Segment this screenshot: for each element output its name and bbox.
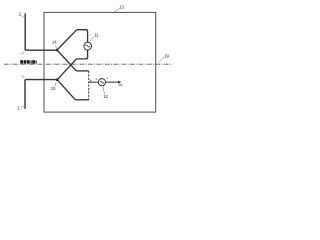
wire: right side vertical bbox=[88, 71, 90, 100]
wire: bottom edge bbox=[75, 99, 88, 101]
wire: lower step horizontal bbox=[76, 70, 88, 72]
node 14 bbox=[56, 49, 59, 52]
feed line 2 vertical bbox=[24, 13, 26, 50]
wire: bottom diagonal up-left to node 15 bbox=[57, 80, 75, 100]
source 12 circle bbox=[98, 79, 105, 86]
sine wave of source 11 bbox=[85, 45, 90, 47]
svg-text:12: 12 bbox=[103, 94, 108, 99]
tick left of source 12 bbox=[96, 79, 97, 80]
tick right of source 12 bbox=[107, 78, 108, 79]
feed line 1 vertical bbox=[24, 80, 26, 109]
svg-text:15: 15 bbox=[51, 86, 56, 91]
wire: node14 diagonal up to top edge bbox=[57, 30, 77, 50]
symmetry axis label 对称面(轴) bbox=[20, 60, 36, 63]
source 11 circle bbox=[84, 42, 92, 50]
feed line 1 horizontal bbox=[25, 79, 57, 81]
svg-text:18: 18 bbox=[119, 83, 123, 87]
tap wire to source 12 bbox=[89, 81, 99, 83]
enclosure box 13 bbox=[44, 12, 156, 112]
feed line 2 horizontal bbox=[25, 49, 57, 51]
junction tick 16 bbox=[90, 80, 91, 81]
svg-text:19: 19 bbox=[164, 53, 169, 58]
symmetry axis centerline bbox=[4, 63, 172, 65]
wire: below source 11 down and left bbox=[76, 50, 87, 59]
corner tick upper feed bbox=[22, 51, 25, 54]
node 15 bbox=[56, 78, 59, 81]
svg-text:13: 13 bbox=[119, 4, 124, 9]
wire: diagonal from step down-left to node 15 (crossing) bbox=[57, 59, 76, 80]
svg-text:11: 11 bbox=[94, 32, 99, 37]
arrowhead output bbox=[118, 81, 121, 84]
wire: node14 diagonal down-right (crossing) bbox=[57, 50, 76, 71]
sine wave of source 12 bbox=[100, 81, 104, 83]
corner tick lower feed bbox=[22, 76, 25, 79]
svg-text:14: 14 bbox=[52, 39, 57, 44]
wire: top edge into source 11 bbox=[77, 30, 88, 43]
output wire from source 12 bbox=[106, 81, 119, 83]
